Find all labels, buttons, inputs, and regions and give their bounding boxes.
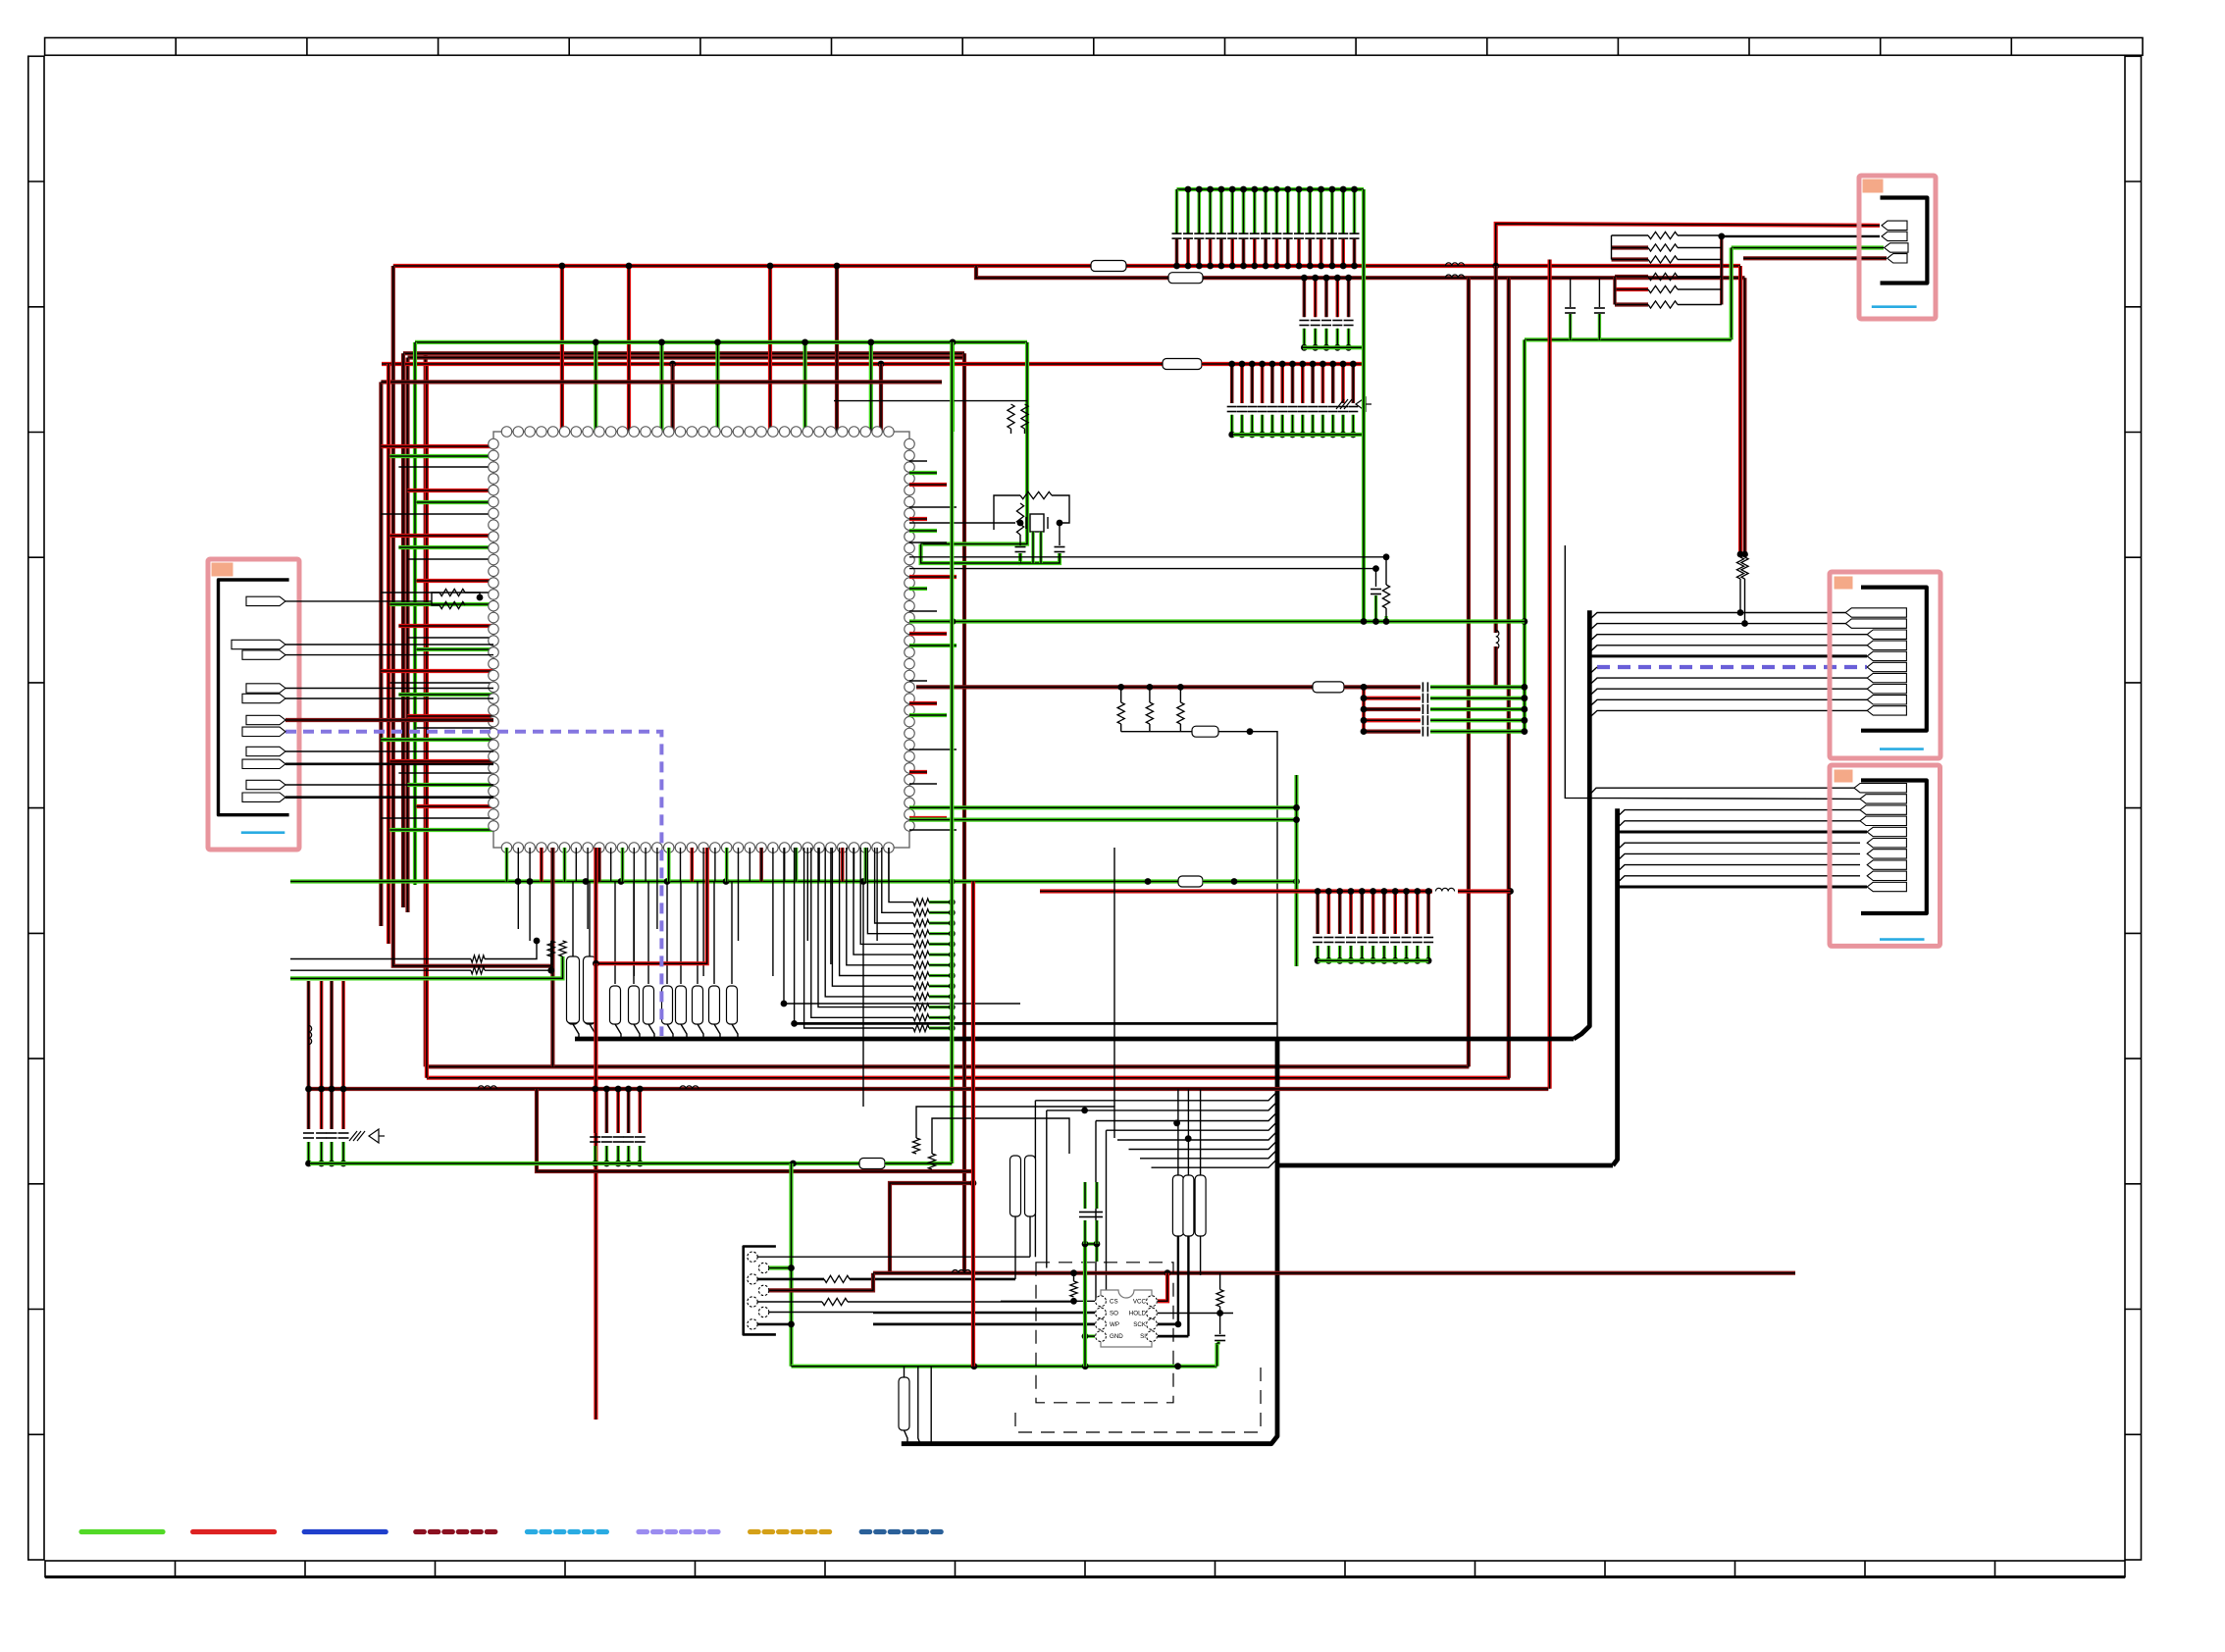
- wire J1 pin11 thick: [285, 796, 493, 799]
- wire IC right stub 3: [909, 483, 947, 487]
- wire bank4 green 4: [1349, 946, 1353, 960]
- capacitor bank1 C11: [1283, 233, 1293, 238]
- wire IC left stub 23: [398, 772, 493, 774]
- connector J4 pin4 flag: [1888, 254, 1907, 263]
- inductor L5 on green y898: [1178, 876, 1203, 887]
- wire bank4 green 5: [1361, 946, 1365, 960]
- inductor FB1: [1445, 263, 1464, 266]
- wire flash sck: [1158, 1323, 1178, 1326]
- wire r flash right up: [1219, 1273, 1221, 1290]
- wire maroon vert x1497: [1467, 278, 1471, 1066]
- wire rb7 down: [930, 1367, 932, 1444]
- connector J1 pin9 flag: [242, 759, 285, 768]
- wire fan 5 to bus: [1117, 1131, 1277, 1140]
- wire bank3 green 8: [1301, 415, 1305, 435]
- wire bank3 red 8: [1301, 364, 1305, 403]
- wire maroon horiz y389: [381, 380, 942, 384]
- wire bank1 red 7: [1242, 239, 1246, 266]
- junction dots bank3 top: [1228, 361, 1356, 368]
- wire pill bottom 5: [648, 1024, 654, 1039]
- connector J1 cyan label: [241, 831, 285, 834]
- junction y568 res: [1383, 553, 1390, 560]
- inductor L0 on y271: [1091, 261, 1126, 272]
- connector J3 bracket: [1861, 781, 1927, 914]
- resistor RS6: [913, 952, 929, 958]
- junction staircase 5: [949, 941, 956, 948]
- wire maroon y700b: [1344, 685, 1364, 689]
- wire red bus riser to J4 pin1: [1496, 224, 1880, 266]
- wire green vert x1390: [1362, 189, 1366, 435]
- wire J5 pin3b: [850, 1278, 1015, 1281]
- wire res3 upper 3: [1179, 687, 1181, 702]
- ground symbol cluster1: [349, 1129, 385, 1143]
- wire J2 line 6 blue dashed: [1597, 665, 1867, 669]
- wire green x1118 stub: [1085, 1244, 1097, 1262]
- wire bank3 red 6: [1280, 364, 1284, 403]
- resistor RB2: [928, 1154, 935, 1169]
- junction flash gnd: [1082, 1333, 1089, 1340]
- wire CF1 dn: [1083, 1220, 1086, 1244]
- wire rn vert left: [1611, 235, 1613, 260]
- wire IC bottom stub 12: [633, 848, 635, 976]
- connector J1 body: [208, 559, 299, 850]
- wire IC bottom stub 3: [529, 848, 531, 941]
- wire cluster1 green 2: [320, 1142, 324, 1163]
- wire bank4 red 3: [1338, 892, 1342, 935]
- wire IC left stub 11: [381, 592, 493, 594]
- wire IC right stub 12: [909, 644, 957, 647]
- wire pill top 1: [572, 882, 574, 985]
- wire staircase 12: [811, 848, 913, 1017]
- junction capblock r: [1522, 728, 1528, 735]
- wire crystal right drop: [1059, 523, 1061, 545]
- legend item 5: [527, 1529, 608, 1534]
- junction capblock r: [1522, 706, 1528, 713]
- wire IC left stub 19: [407, 714, 493, 718]
- svg-text:GND: GND: [1110, 1333, 1123, 1340]
- wire J3 line 7: [1618, 853, 1860, 860]
- connector J1 pin3 flag: [242, 650, 285, 659]
- resistor RP10 pill: [727, 986, 738, 1024]
- wire green crystal drop2: [1039, 532, 1042, 563]
- wire maroon vert x1778 pullups: [1743, 278, 1747, 554]
- resistor R tap x1413: [1382, 585, 1389, 608]
- wire rn right vert: [1720, 235, 1723, 305]
- wire cluster1 up 3: [330, 981, 334, 1089]
- capacitor bank1 C17: [1350, 233, 1360, 238]
- flash chip U2 dashed box: [1036, 1263, 1173, 1403]
- wire J1 pin1 riser: [432, 593, 440, 601]
- wire cap drop 1: [1570, 278, 1572, 307]
- wire green rn riser: [1730, 248, 1733, 340]
- wire c flash green: [1217, 1341, 1220, 1344]
- capacitor bank3 C3: [1247, 407, 1257, 412]
- junction dots green bus y898: [515, 878, 1238, 885]
- wire staircase 13: [804, 848, 913, 1028]
- ground symbol bank3: [1336, 397, 1371, 411]
- resistor RP7 pill: [676, 986, 687, 1024]
- resistor RS8: [913, 972, 929, 979]
- resistor R flash right: [1216, 1290, 1223, 1307]
- wire IC bottom stub 19: [714, 848, 716, 882]
- wire staircase green 9: [929, 985, 952, 988]
- junction green x1106: [1082, 1241, 1089, 1248]
- black bus x1302 low: [902, 1039, 1277, 1444]
- wire bank4 red 6: [1371, 892, 1375, 935]
- resistor RB4 pill: [1025, 1156, 1036, 1216]
- wire maroon vert x388: [379, 382, 383, 926]
- wire bank2 red 5: [1347, 278, 1351, 317]
- resistor RP4 pill: [629, 986, 640, 1024]
- wire J3 line 10 thick: [1618, 886, 1867, 889]
- resistor R pullup J2a: [1736, 557, 1743, 579]
- capacitor bank1 C6: [1227, 233, 1237, 238]
- wire bank1 red 12: [1297, 239, 1301, 266]
- wire fan 7 to bus: [1140, 1150, 1277, 1159]
- svg-text:WP: WP: [1110, 1321, 1119, 1328]
- capacitor CB3: [1423, 704, 1427, 714]
- wire IC left stub 21: [381, 738, 493, 742]
- wire bank4 red 9: [1405, 892, 1409, 935]
- wire IC right stub 18: [909, 783, 937, 785]
- resistor RS3: [913, 919, 929, 926]
- wire staircase green 12: [929, 1016, 952, 1019]
- wire capblock green row 3: [1430, 707, 1525, 711]
- wire staircase 3: [875, 848, 913, 923]
- wire pill bottom 8: [698, 1024, 703, 1039]
- wire rn3 left: [1612, 257, 1649, 261]
- junction capblock l: [1361, 717, 1368, 724]
- wire flash gnd green: [1085, 1334, 1095, 1337]
- wire staircase 2: [882, 848, 913, 912]
- wire IC bottom stub 18: [702, 848, 704, 976]
- capacitor C osc left: [1015, 547, 1026, 552]
- junction green x1321 b: [1293, 816, 1300, 823]
- resistor R osc top: [1020, 491, 1052, 498]
- wire pill bottom 4: [634, 1024, 640, 1039]
- capacitor CB2: [1423, 694, 1427, 703]
- wire bank1 red 17: [1353, 239, 1357, 266]
- wire pill bottom 10: [732, 1024, 738, 1039]
- wire IC left stub 14: [407, 637, 493, 639]
- wire green elbow down x806: [789, 1163, 793, 1367]
- wire IC left stub 9: [407, 558, 493, 560]
- wire pillcol bottom 2: [1187, 1236, 1189, 1336]
- junction x799: [781, 1001, 788, 1007]
- inductor L3 on y700: [1313, 682, 1344, 693]
- connector J4 cyan label: [1872, 305, 1917, 308]
- junction dots bank4 bot: [1315, 957, 1432, 964]
- inductor FB coil x1525: [1496, 630, 1499, 648]
- capacitor CB5: [1423, 727, 1427, 737]
- junction staircase 2: [949, 909, 956, 916]
- wire rz4 line: [485, 941, 551, 970]
- wire IC bottom stub 28: [818, 848, 820, 882]
- wire flash cs res up: [1073, 1273, 1075, 1281]
- wire pill top 8: [697, 882, 699, 985]
- wire IC right stub 8: [909, 575, 957, 579]
- wire J4 pin4 darkred: [1743, 256, 1887, 260]
- resistor RP2 pill: [585, 986, 595, 1024]
- wire pillcol top 1: [1177, 1089, 1179, 1175]
- wire J5 pin6: [769, 1312, 1095, 1314]
- wire red vert x396: [387, 364, 390, 944]
- wire J2 line 5 thick: [1589, 654, 1867, 657]
- resistor RS13: [913, 1024, 929, 1031]
- capacitor CB4: [1423, 715, 1427, 725]
- capacitor bank2 C4: [1332, 321, 1342, 326]
- wire IC bottom stub 17: [690, 848, 694, 882]
- wire capblock green row 5: [1430, 729, 1525, 733]
- junction dots red bus y271: [559, 263, 841, 270]
- wire rn6 left: [1615, 302, 1648, 306]
- resistor R pullup J2b: [1741, 557, 1748, 579]
- wire bank3 red 10: [1321, 364, 1325, 403]
- resistor RN1: [1648, 232, 1678, 238]
- wire capblock red row 1: [1364, 685, 1421, 689]
- wire bank3 green 6: [1280, 415, 1284, 435]
- junction y1043: [791, 1020, 798, 1027]
- wire cluster1 up 2: [320, 981, 324, 1089]
- capacitor C tap x1402: [1371, 590, 1381, 594]
- wire IC bottom stub 8: [587, 848, 589, 929]
- wire bank1 red 15: [1330, 239, 1334, 266]
- wire cap drop 2: [1598, 278, 1600, 307]
- wire bank1 red 5: [1219, 239, 1223, 266]
- wire IC right stub 9: [909, 587, 927, 591]
- wire bank3 green 9: [1311, 415, 1315, 435]
- wire IC right stub 4: [909, 506, 957, 508]
- wire bank3 red 1: [1230, 364, 1234, 403]
- wire J1 pin5: [285, 697, 493, 699]
- wire bank2 red 1: [1303, 278, 1307, 317]
- junction capblock l: [1361, 695, 1368, 701]
- capacitor CF1: [1079, 1213, 1091, 1217]
- wire maroon elbow x907: [890, 1183, 973, 1273]
- wire J4 pin2 black: [1722, 235, 1880, 237]
- wire bank1 red 14: [1319, 239, 1323, 266]
- wire red drop 1 to IC top: [560, 266, 564, 432]
- resistor R flash CS: [1070, 1281, 1077, 1297]
- wire IC right stub 17: [909, 770, 927, 774]
- wire J2 line 10: [1589, 710, 1867, 717]
- wire cluster1 maroon 4: [341, 1089, 345, 1129]
- wire IC bottom stub 20: [725, 848, 729, 882]
- black bus x1648 spine: [1613, 808, 1618, 1165]
- wire bank1 green 6: [1230, 189, 1234, 233]
- wire rn1 left: [1612, 234, 1649, 236]
- wire pill top 10: [731, 882, 733, 985]
- capacitor CM5: [635, 1137, 646, 1142]
- wire maroon vert x563: [550, 848, 554, 966]
- wire green drop 3 to IC top: [715, 342, 719, 432]
- wire bank4 green 6: [1371, 946, 1375, 960]
- svg-text:SCK: SCK: [1133, 1321, 1147, 1328]
- wire bank1 red 3: [1198, 239, 1202, 266]
- capacitor bank4 C3: [1335, 938, 1345, 943]
- wire red drop 2 to IC top: [627, 266, 631, 432]
- capacitor bank3 C1: [1227, 407, 1237, 412]
- junction staircase 9: [949, 983, 956, 990]
- wire IC left stub 1: [381, 444, 493, 448]
- wire IC bottom stub 24: [772, 848, 774, 976]
- wire pill top 2: [589, 882, 591, 985]
- wire pillcol top 3: [1200, 1089, 1202, 1175]
- capacitor bank4 C2: [1323, 938, 1333, 943]
- wire bank1 red 9: [1264, 239, 1268, 266]
- junction staircase 13: [949, 1025, 956, 1032]
- junction J5 pin2: [788, 1265, 795, 1271]
- wire cluster2 green 2: [605, 1146, 609, 1163]
- wire red bus bank4: [1040, 889, 1432, 893]
- wire IC right stub 16: [909, 749, 957, 750]
- wire red left drop x400: [393, 266, 553, 1066]
- wire cap tap green: [1374, 595, 1377, 622]
- wire green drop 5 to IC top: [869, 342, 873, 432]
- wire staircase green 4: [929, 932, 952, 935]
- wire maroon vert x1525 low: [1494, 646, 1498, 687]
- capacitor bank2 C5: [1344, 321, 1354, 326]
- wire staircase 5: [860, 848, 913, 944]
- junction dots bank2 top: [1301, 275, 1352, 282]
- capacitor bank1 C13: [1305, 233, 1315, 238]
- junction staircase 12: [949, 1014, 956, 1021]
- wire pillcol bottom 1: [1177, 1236, 1179, 1324]
- wire IC bottom stub 26: [795, 848, 799, 882]
- wire capblock red row 4: [1364, 718, 1421, 722]
- wire maroon vert x415: [405, 358, 409, 913]
- wire pullup a down: [1739, 579, 1741, 613]
- wire green vert x1390 lower: [1362, 435, 1366, 622]
- wire IC bottom stub 2: [517, 848, 519, 929]
- wire cluster2 green 1: [594, 1146, 597, 1163]
- wire IC left stub 27: [389, 828, 493, 832]
- wire rb4 down: [1029, 1216, 1031, 1257]
- wire bank4 green 2: [1327, 946, 1331, 960]
- inductor L2 on y371: [1163, 359, 1202, 370]
- wire staircase 6: [854, 848, 913, 955]
- wire IC bottom stub 29: [830, 848, 832, 964]
- connector J2 pin10 flag: [1867, 706, 1906, 715]
- wire J1 pin1: [285, 600, 432, 602]
- resistor RB3 pill: [1010, 1156, 1021, 1216]
- wire thin y745 mid: [1121, 731, 1192, 733]
- wire fan 1 to bus: [1035, 1092, 1277, 1101]
- black bus y1043 WP: [795, 1022, 1277, 1025]
- wire bank4 red 7: [1382, 892, 1386, 935]
- resistor RS12: [913, 1014, 929, 1021]
- wire green top bus y349: [415, 340, 1027, 344]
- wire maroon riser x547: [537, 1089, 973, 1171]
- wire bank4 green 1: [1316, 946, 1319, 960]
- resistor RS9: [913, 983, 929, 990]
- wire rz4 left: [290, 969, 471, 971]
- wire bank4 green 11: [1426, 946, 1430, 960]
- wire IC bottom stub 34: [888, 848, 890, 882]
- connector J3 pin1 flag: [1854, 784, 1906, 793]
- wire IC right stub 6: [909, 529, 937, 533]
- junction green x1321 a: [1293, 804, 1300, 811]
- wire cluster1 up 4: [341, 981, 345, 1089]
- capacitor bank3 C2: [1237, 407, 1247, 412]
- wire rn right stub y240: [1678, 234, 1722, 236]
- connector J2 body: [1830, 572, 1940, 758]
- wire IC bottom stub 10: [610, 848, 612, 882]
- wire bank1 green 13: [1309, 189, 1313, 233]
- resistor R xtal b: [1021, 404, 1028, 429]
- wire red vert x607 down: [594, 963, 597, 1420]
- wire IC left stub 3: [398, 466, 493, 468]
- connector J1 pin1 flag: [246, 596, 285, 605]
- wire rz3 left: [290, 958, 471, 960]
- connector J4 pin2 flag: [1882, 232, 1907, 240]
- wire IC left stub 12: [389, 602, 493, 606]
- legend item 7: [750, 1529, 832, 1534]
- wire staircase 8: [840, 848, 913, 976]
- wire bank3 green 3: [1251, 415, 1255, 435]
- junction flash sck: [1175, 1321, 1182, 1328]
- capacitor bank3 C5: [1268, 407, 1277, 412]
- capacitor bank1 C9: [1261, 233, 1270, 238]
- resistor RP1 pill: [568, 986, 579, 1024]
- junction capblock l: [1361, 706, 1368, 713]
- wire bank1 green 9: [1264, 189, 1268, 233]
- wire thin y745 mid2: [1218, 732, 1277, 1039]
- wire net y568: [909, 556, 1386, 558]
- wire IC left stub 15: [416, 647, 493, 651]
- wire cluster1 maroon 3: [330, 1089, 334, 1129]
- wire x809 vert: [794, 848, 796, 1023]
- capacitor bank1 C2: [1183, 233, 1193, 238]
- wire rb5 down: [905, 1430, 908, 1444]
- connector J3 pin10 flag: [1867, 882, 1906, 891]
- wire IC right stub 14: [909, 701, 937, 705]
- flash chip U2 pins and labels: [1096, 1296, 1158, 1342]
- wire J5 pin5: [757, 1301, 822, 1303]
- wire J1 pin8: [285, 750, 493, 752]
- wire rn right stub y295: [1678, 288, 1722, 290]
- resistor RS5: [913, 941, 929, 948]
- wire flash si: [1158, 1335, 1188, 1338]
- connector J1 pin7 flag: [242, 727, 285, 736]
- wire pill top 4: [633, 882, 635, 985]
- wire net y580: [909, 568, 1376, 570]
- svg-text:SI: SI: [1140, 1333, 1146, 1340]
- wire IC right stub 1: [909, 460, 927, 462]
- resistor RZ3: [471, 955, 485, 962]
- junction crystal right: [1057, 520, 1063, 527]
- wire bank4 red 8: [1393, 892, 1397, 935]
- flash chip U2 body: [1101, 1290, 1152, 1347]
- wire J1 pin10: [285, 784, 493, 786]
- inductor FB2: [1445, 275, 1464, 278]
- wire J1 r to ic: [465, 593, 480, 597]
- wire pill bottom 6: [667, 1024, 673, 1039]
- connector J3 body: [1830, 765, 1940, 946]
- junction staircase 7: [949, 961, 956, 968]
- wire J3 line 8: [1618, 865, 1860, 872]
- junction staircase 4: [949, 930, 956, 937]
- wire green bus bank3: [1233, 433, 1364, 437]
- junction staircase 11: [949, 1004, 956, 1010]
- junction red bus x1524: [1492, 263, 1499, 270]
- connector J2 pin4 flag: [1867, 641, 1906, 649]
- junction crystal left: [1017, 520, 1024, 527]
- wire bank1 red 2: [1186, 239, 1190, 266]
- wire IC left stub 2: [389, 454, 493, 458]
- wire maroon vert x434 up: [424, 353, 428, 1066]
- connector J2 bracket: [1861, 588, 1927, 731]
